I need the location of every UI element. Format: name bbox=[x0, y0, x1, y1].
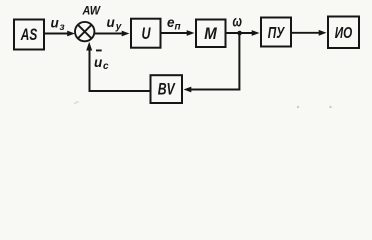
svg-text:M: M bbox=[204, 25, 218, 43]
svg-text:ИО: ИО bbox=[335, 25, 353, 42]
signal label u_c bbox=[94, 55, 109, 72]
wire U to M bbox=[161, 30, 195, 36]
signal label omega bbox=[233, 14, 243, 31]
wire node down and left to BV (feedback right segment) bbox=[184, 34, 240, 92]
svg-text:U: U bbox=[142, 25, 152, 43]
wire PU to IO bbox=[291, 30, 327, 36]
svg-text:u: u bbox=[51, 16, 60, 31]
svg-text:ω: ω bbox=[233, 14, 243, 31]
svg-text:BV: BV bbox=[158, 80, 176, 98]
svg-text:AW: AW bbox=[82, 6, 102, 18]
svg-text:з: з bbox=[60, 22, 65, 33]
wire M to PU bbox=[226, 30, 260, 36]
block BV bbox=[151, 75, 183, 103]
block U bbox=[131, 19, 161, 48]
block M bbox=[196, 20, 226, 48]
minus sign at summing junction bbox=[96, 50, 102, 52]
wire AS to summing junction bbox=[44, 31, 75, 37]
signal label e_p bbox=[167, 15, 181, 33]
wire summing junction to U bbox=[95, 31, 130, 37]
svg-text:u: u bbox=[94, 55, 103, 70]
svg-text:c: c bbox=[103, 61, 109, 72]
signal label u_z bbox=[51, 16, 65, 33]
scan noise (decorative) bbox=[297, 106, 299, 108]
svg-text:y: y bbox=[115, 22, 122, 33]
block AS bbox=[14, 20, 44, 50]
node junction after M bbox=[237, 31, 242, 36]
summing junction AW (circle with X) bbox=[75, 22, 94, 41]
block IO bbox=[328, 17, 359, 49]
block PU bbox=[261, 18, 291, 47]
signal label u_y bbox=[107, 15, 122, 33]
svg-text:AS: AS bbox=[20, 25, 38, 44]
wire BV left and up to summing junction (feedback left segment) bbox=[86, 42, 150, 91]
svg-text:п: п bbox=[175, 22, 181, 33]
svg-text:u: u bbox=[107, 15, 116, 30]
svg-text:ПУ: ПУ bbox=[268, 25, 286, 42]
label AW bbox=[82, 6, 102, 18]
